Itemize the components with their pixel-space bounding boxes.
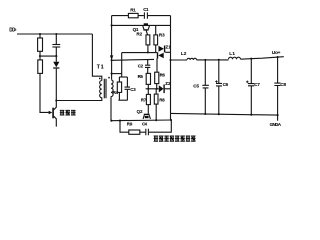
capacitor C8 <box>277 57 279 83</box>
svg-text:L1: L1 <box>229 51 235 56</box>
inductor L1 <box>229 57 241 59</box>
capacitor C2 <box>147 60 149 65</box>
wire corner down to T1 primary <box>92 34 101 81</box>
wire to base <box>40 73 49 112</box>
zener Z2 <box>159 85 164 92</box>
wire R9/C4 branch <box>120 121 129 133</box>
wire riser <box>121 53 123 77</box>
wire secondary bottom to block bottom rail <box>110 96 112 120</box>
wire output top rail <box>171 59 188 61</box>
wire W2 <box>112 24 171 26</box>
polarity dot secondary <box>108 77 110 79</box>
transformer core <box>104 79 106 99</box>
node dot left rail at C2 wire <box>111 59 113 61</box>
node dots bottom rail <box>204 113 206 115</box>
node collector junction dot <box>55 99 57 101</box>
node dot C6 top <box>218 59 220 61</box>
diode branch2 <box>55 56 57 62</box>
node dot branch1 mid <box>39 55 41 57</box>
svg-text:R9: R9 <box>127 121 133 126</box>
svg-text:T1: T1 <box>97 65 104 71</box>
wire right rail <box>170 16 172 121</box>
wire <box>39 51 41 56</box>
wire block bottom rail <box>111 119 171 122</box>
polarity dot primary <box>99 78 101 80</box>
svg-text:R4: R4 <box>113 90 119 95</box>
node junction dot branch1 <box>39 33 41 35</box>
resistor startup lower (branch1) <box>39 56 41 60</box>
transistor Q1 <box>144 23 148 25</box>
transistor Q2 <box>144 114 150 116</box>
node dot C8 top <box>277 56 279 58</box>
node junction dot branch2 <box>55 33 57 35</box>
node dot left rail at W2 <box>111 24 113 26</box>
wire r4c3 top <box>119 76 127 78</box>
wire Z2 row <box>146 88 159 90</box>
resistor R6 <box>155 72 159 83</box>
svg-text:R8: R8 <box>159 97 165 102</box>
diode arrow on left rail <box>110 55 113 60</box>
svg-text:GNDA: GNDA <box>270 122 282 127</box>
capacitor C1 <box>144 12 147 18</box>
resistor R4 <box>118 77 120 82</box>
capacitor C3 <box>126 77 128 87</box>
node dot left rail at wire73 <box>111 73 113 75</box>
node dot C5 top <box>204 59 206 61</box>
svg-text:R5: R5 <box>138 74 144 79</box>
transformer T1 primary winding <box>100 81 102 98</box>
wire r4c3 bottom <box>118 99 127 101</box>
svg-text:L2: L2 <box>181 51 187 56</box>
svg-text:Q2: Q2 <box>137 109 143 114</box>
resistor R8 <box>155 89 157 94</box>
inductor L2 <box>187 58 197 60</box>
resistor R2 <box>146 35 150 45</box>
svg-text:C7: C7 <box>254 82 260 87</box>
wire output bottom rail <box>171 113 278 115</box>
resistor R9 <box>129 130 140 134</box>
wire left rail of control block <box>111 16 113 80</box>
caption 输出整流滤波电路 (fake CJK strokes) <box>154 136 196 142</box>
resistor R3 <box>155 25 157 35</box>
svg-text:C8: C8 <box>280 82 286 87</box>
svg-text:R6: R6 <box>160 72 166 77</box>
wire cross-connector <box>40 55 56 57</box>
wire Z1 to R6 column <box>156 58 158 72</box>
wire collector to primary bottom <box>56 98 102 101</box>
resistor startup upper (branch1) <box>39 34 41 38</box>
svg-text:R1: R1 <box>130 7 136 12</box>
capacitor C4 <box>146 129 149 136</box>
svg-text:Uo+: Uo+ <box>272 50 281 56</box>
svg-text:C5: C5 <box>193 84 199 89</box>
svg-text:C6: C6 <box>223 82 229 87</box>
svg-text:DC+: DC+ <box>9 27 16 33</box>
wire 73 <box>112 73 122 75</box>
node dot C7 top <box>250 58 252 60</box>
svg-text:R3: R3 <box>159 32 165 37</box>
transformer T1 secondary winding <box>111 80 113 97</box>
svg-text:C2: C2 <box>138 64 144 69</box>
wire C2 branch <box>112 58 154 61</box>
svg-text:R2: R2 <box>136 31 142 36</box>
capacitor C5 <box>204 60 206 85</box>
ground stub GNDA <box>277 115 279 121</box>
svg-text:C1: C1 <box>143 7 149 12</box>
svg-text:C3: C3 <box>130 87 136 92</box>
svg-text:C4: C4 <box>142 121 148 126</box>
wire W1 top (R1 C1 loop) <box>112 15 171 17</box>
label 开关管 (fake CJK strokes) <box>60 110 76 116</box>
capacitor branch2 <box>55 34 57 44</box>
wire DC+ rail <box>17 33 92 35</box>
transistor switch (开关管) <box>49 111 53 114</box>
resistor R5 <box>146 73 150 84</box>
zener Z1 (anti-parallel pair) <box>157 52 158 58</box>
resistor R1 <box>128 13 138 17</box>
svg-text:R7: R7 <box>141 98 147 103</box>
resistor R7 <box>147 89 149 95</box>
capacitor C6 electrolytic <box>218 60 220 83</box>
node dot branch2 mid <box>55 55 57 57</box>
capacitor C7 electrolytic <box>250 59 252 84</box>
wire W_a <box>122 52 157 54</box>
